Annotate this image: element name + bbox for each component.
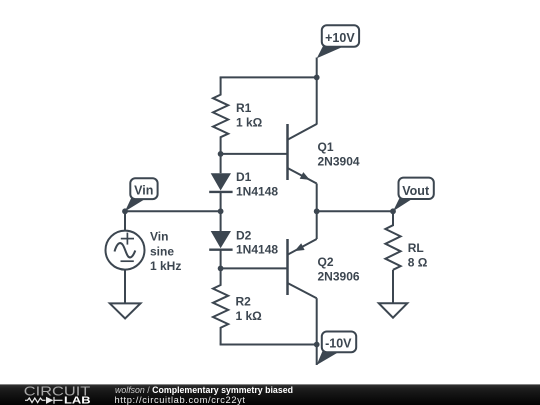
node -10V label [317,332,357,366]
label RL value [408,241,428,270]
svg-text:Q2: Q2 [318,255,334,269]
node junction D1/D2 [218,208,224,214]
node Vout label [393,178,434,212]
svg-text:1N4148: 1N4148 [236,185,278,199]
label D1 value [236,170,278,199]
node +10V label [317,25,359,58]
resistor R1 [213,77,228,153]
ground (Vin source) [110,303,141,318]
svg-text:1 kΩ: 1 kΩ [236,309,263,323]
wire -10V stem [316,345,318,366]
wire Q1 collector to top junction [316,77,318,124]
node junction Vin [122,208,128,214]
svg-text:http://circuitlab.com/crc22yt: http://circuitlab.com/crc22yt [115,395,246,405]
svg-text:-10V: -10V [325,337,352,351]
svg-text:sine: sine [150,245,174,259]
wire top (R1 top to +10V stem) [220,76,317,78]
svg-text:1N4148: 1N4148 [236,243,278,257]
svg-text:2N3904: 2N3904 [318,155,360,169]
svg-text:LAB: LAB [64,396,91,405]
svg-text:Vin: Vin [134,184,153,198]
node junction emitters [314,208,320,214]
label Q2 value [318,255,360,284]
svg-text:Q1: Q1 [318,140,334,154]
svg-text:R1: R1 [236,101,252,115]
Q2 emitter arrow [295,243,305,251]
label V1 value [150,230,181,273]
wire emitter junction to Vout node [317,210,393,212]
resistor RL [385,211,400,269]
svg-text:wolfson / Complementary symmet: wolfson / Complementary symmetry biased [115,385,293,395]
svg-text:1 kHz: 1 kHz [150,259,181,273]
svg-text:RL: RL [408,241,424,255]
label D2 value [236,228,278,256]
node junction D2/R2/Q2 base [218,266,224,272]
node junction R1/D1/Q1 base [218,151,224,157]
node junction at +10V rail [314,75,320,81]
Q1 emitter arrow [300,172,310,180]
CircuitLab logo [24,383,91,405]
svg-text:R2: R2 [236,295,252,309]
node junction -10V rail [314,342,320,348]
wire Vin node to diode midpoint [125,210,221,212]
wire Q1 base (node to Q1) [221,153,288,155]
label R1 value [236,101,263,130]
label R2 value [236,295,263,324]
resistor R2 [213,268,228,344]
ground (RL) [379,303,408,317]
footer title text [115,385,293,405]
wire Q1 emitter down [316,184,318,212]
svg-text:1 kΩ: 1 kΩ [236,116,263,130]
svg-text:+10V: +10V [325,31,355,45]
wire Vin source top lead [124,211,126,230]
wire bottom (R2 bottom to -10V junction) [220,344,317,346]
label Q1 value [318,140,360,169]
svg-text:D1: D1 [236,170,252,184]
svg-text:2N3906: 2N3906 [318,269,360,283]
wire RL bottom lead to ground [392,270,394,304]
svg-text:Vout: Vout [402,184,430,198]
node junction Vout [390,208,396,214]
diode D2 [209,211,232,268]
svg-text:Vin: Vin [150,230,168,244]
svg-text:8 Ω: 8 Ω [408,256,428,270]
transistor Q1 [288,124,317,184]
node Vin label [125,178,158,211]
wire Vin source bottom lead [124,270,126,304]
svg-text:D2: D2 [236,228,252,242]
wire Q2 base (node to Q2) [221,267,288,269]
voltage source V1 (Vin) [106,231,145,270]
wire Q2 emitter up [316,211,318,239]
diode D1 [209,154,232,211]
wire +10V stem [316,58,318,78]
transistor Q2 [288,239,317,298]
wire Q2 collector down [316,298,318,344]
